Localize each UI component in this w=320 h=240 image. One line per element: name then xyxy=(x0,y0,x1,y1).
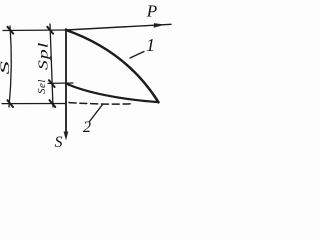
svg-text:P: P xyxy=(146,2,157,21)
svg-text:Sel: Sel xyxy=(36,79,48,94)
svg-text:Spl: Spl xyxy=(35,42,50,70)
svg-text:2: 2 xyxy=(83,119,91,136)
svg-text:1: 1 xyxy=(146,35,155,55)
svg-text:S: S xyxy=(0,60,12,74)
svg-text:S: S xyxy=(55,134,63,151)
